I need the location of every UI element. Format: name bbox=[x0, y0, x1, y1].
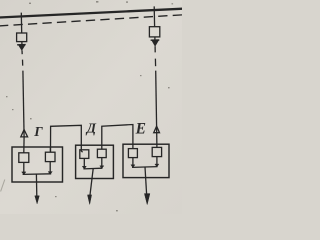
output arrowhead box1 bbox=[35, 196, 40, 204]
wire below box3 right square bbox=[156, 157, 158, 167]
fuse F1 (square) bbox=[17, 33, 27, 42]
arrester arrow (crossbar + down triangle) right bbox=[151, 39, 160, 41]
wire: right drop from busbar bbox=[153, 6, 155, 26]
wire dash right drop bbox=[154, 59, 156, 67]
svg-text:Д: Д bbox=[85, 121, 97, 136]
svg-text:Е: Е bbox=[135, 120, 146, 137]
up arrowhead into unit Е bbox=[154, 126, 160, 133]
fuse square box3 left bbox=[128, 149, 137, 158]
output wire box2 bbox=[90, 169, 93, 196]
wire below F1 bbox=[21, 42, 23, 45]
wire below box2 left square bbox=[83, 158, 85, 168]
wire left drop to unit bbox=[23, 71, 24, 137]
fuse square box1 right bbox=[45, 152, 55, 161]
join bar box1 bbox=[23, 173, 52, 176]
wire right drop to unit bbox=[156, 71, 157, 133]
wire segment left drop bbox=[21, 50, 23, 54]
paper background bbox=[0, 0, 182, 214]
wire below box2 right square bbox=[101, 158, 103, 169]
junction arrowhead box3 right bbox=[155, 164, 159, 167]
wire segment right drop bbox=[154, 46, 156, 52]
wire dash left drop bbox=[22, 60, 24, 66]
wire below F2 bbox=[154, 37, 156, 41]
busbar (solid supply line) bbox=[0, 9, 183, 18]
junction arrowhead box3 left bbox=[131, 165, 135, 168]
unit box Г bbox=[12, 147, 63, 182]
scan speckles bbox=[6, 1, 173, 211]
fuse square box1 left bbox=[19, 153, 29, 163]
jumper wire box1->box2 bbox=[51, 125, 83, 152]
junction arrowhead box2 right bbox=[100, 166, 104, 169]
fuse square box3 right bbox=[152, 147, 161, 156]
fuse square box2 left bbox=[80, 150, 89, 159]
wire below box1 left square bbox=[23, 162, 25, 174]
lead into box1 right square bbox=[49, 147, 51, 152]
wire into box 1 bbox=[23, 137, 25, 153]
output arrowhead box2 bbox=[88, 195, 92, 205]
scan scratch bottom left bbox=[1, 180, 5, 192]
fuse F2 (square) bbox=[149, 27, 159, 37]
arrester arrow (crossbar + down triangle) left bbox=[17, 44, 26, 46]
jumper wire box2->box3 bbox=[102, 125, 133, 150]
unit box Е bbox=[123, 144, 169, 177]
up arrowhead into unit Г bbox=[21, 130, 28, 137]
junction arrowhead box1 left bbox=[22, 172, 26, 175]
junction arrowhead box1 right bbox=[48, 172, 52, 175]
unit box Д bbox=[76, 145, 114, 178]
output arrowhead box3 bbox=[144, 194, 150, 205]
join bar box3 bbox=[132, 166, 158, 169]
dashed second bus bbox=[0, 15, 183, 26]
wire into box 3 bbox=[156, 133, 158, 148]
svg-text:Г: Г bbox=[33, 125, 43, 140]
wire below box1 right square bbox=[49, 162, 51, 174]
wire below box3 left square bbox=[132, 158, 134, 168]
fuse square box2 right bbox=[97, 149, 106, 157]
output wire box1 bbox=[35, 174, 37, 196]
junction arrowhead box2 left bbox=[82, 166, 86, 169]
wire: left drop from busbar bbox=[20, 13, 22, 33]
output wire box3 bbox=[145, 167, 147, 194]
join bar box2 bbox=[83, 167, 102, 170]
